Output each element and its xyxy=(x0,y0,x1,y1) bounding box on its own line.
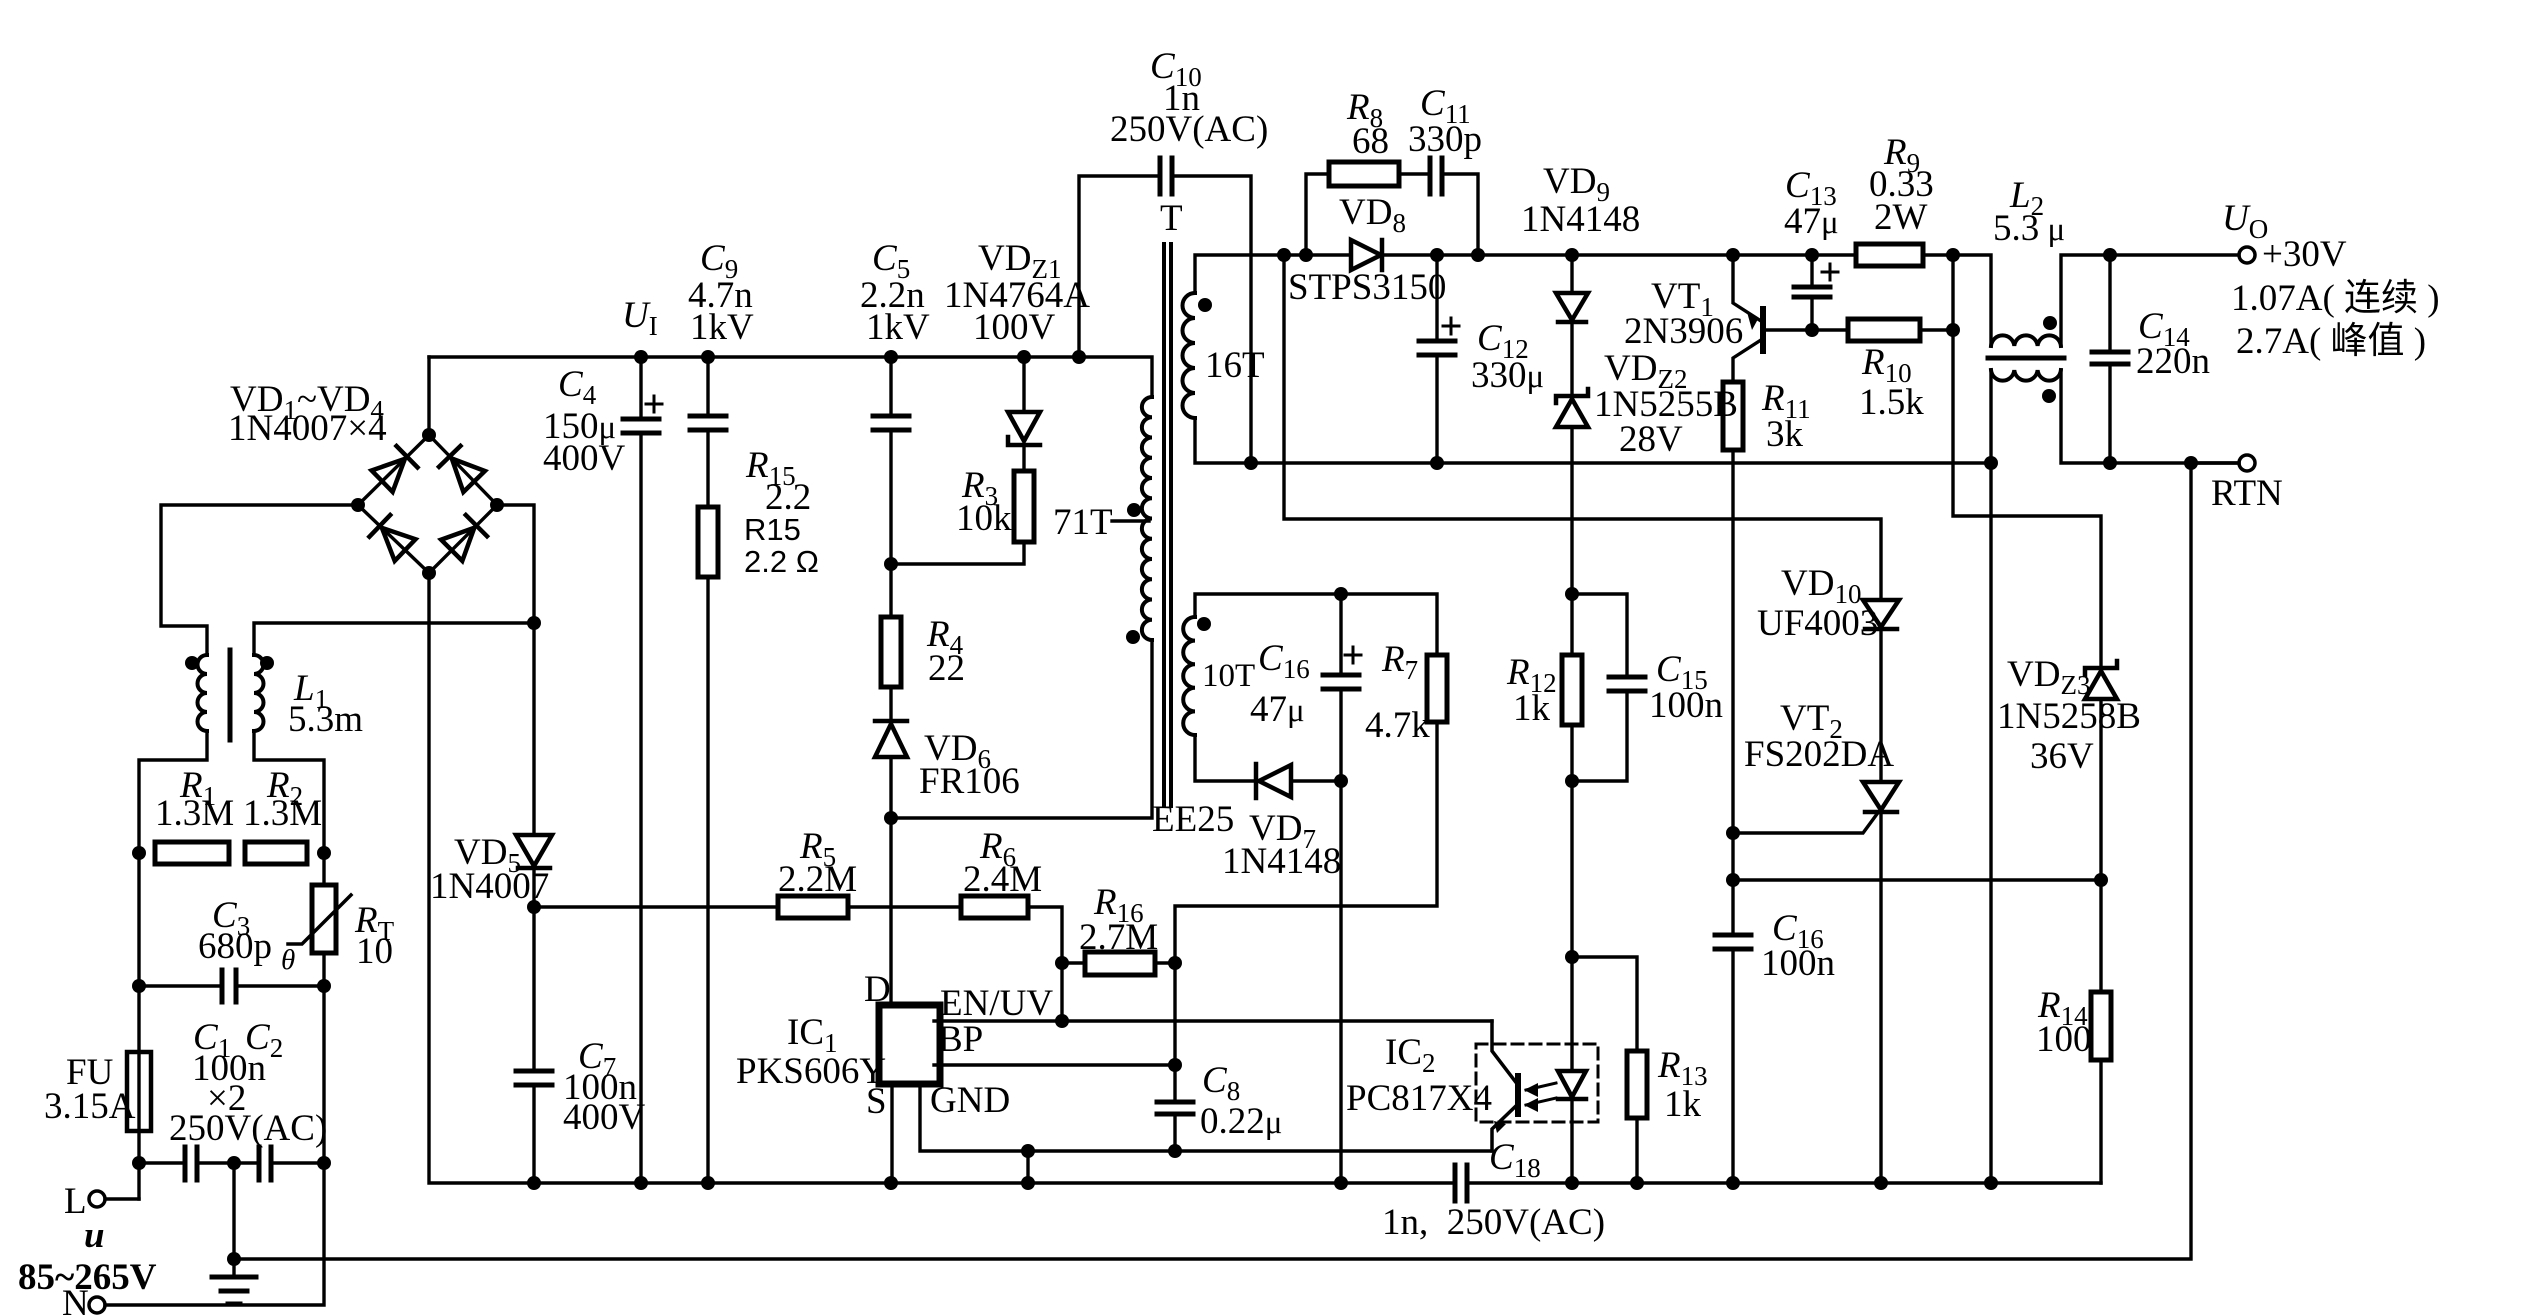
svg-text:EE25: EE25 xyxy=(1152,799,1234,840)
capacitor C13 xyxy=(1794,287,1830,297)
polarity dot L2 top xyxy=(2043,316,2057,330)
node C3 right xyxy=(317,979,331,993)
node rail C5 xyxy=(884,350,898,364)
node bias C16 bottom xyxy=(1334,774,1348,788)
node rail2 C13 xyxy=(1805,248,1819,262)
wire bridge top to rail xyxy=(427,357,430,435)
node Y-cap centre xyxy=(227,1156,241,1170)
polarity dot L1 right xyxy=(260,656,274,670)
resistor R6 xyxy=(961,896,1028,918)
diode VD10 xyxy=(1863,600,1899,629)
node bus VT2 xyxy=(1874,1176,1888,1190)
svg-text:N: N xyxy=(62,1283,89,1316)
node R13 branch xyxy=(1565,950,1579,964)
optocoupler IC2 phototransistor xyxy=(1492,1021,1518,1151)
svg-text:2.2 Ω: 2.2 Ω xyxy=(744,544,819,579)
node rail2 snubber left xyxy=(1299,248,1313,262)
node bus LED xyxy=(1565,1176,1579,1190)
wire RTN rail to terminal xyxy=(2191,461,2239,464)
wire R4 to VD6 xyxy=(889,687,892,721)
wire C13 top lead xyxy=(1810,255,1813,287)
capacitor C18 xyxy=(1455,1165,1467,1201)
wire C12 bottom to return rail xyxy=(1435,355,1438,463)
node bus GND xyxy=(1021,1176,1035,1190)
svg-text:1n, 250V(AC): 1n, 250V(AC) xyxy=(1382,1202,1605,1243)
wire L2 bottom winding left to return rail xyxy=(1989,370,1992,463)
wire VT1 base row xyxy=(1763,328,1848,331)
wire bridge right vertex down to VD5 xyxy=(497,505,534,835)
wire Y-cap centre to earth xyxy=(232,1163,235,1277)
wire feedback node to R12 xyxy=(1570,594,1573,655)
optocoupler IC2 dashed outline xyxy=(1476,1044,1598,1122)
node base R10 right xyxy=(1946,323,1960,337)
wire L1 right winding bottom to R2 xyxy=(254,731,324,853)
diode VD3 bridge bottom-left xyxy=(369,515,415,561)
svg-text:UF4003: UF4003 xyxy=(1757,603,1878,644)
wire L1 left winding bottom to R1 xyxy=(139,731,207,853)
capacitor C9 xyxy=(690,416,726,430)
diode VD4 bridge bottom-right xyxy=(441,515,487,561)
svg-text:0.22μ: 0.22μ xyxy=(1200,1101,1282,1142)
plus sign C13 xyxy=(1822,264,1838,280)
node R16 right xyxy=(1168,956,1182,970)
diode VD7 xyxy=(1256,764,1291,798)
svg-text:220n: 220n xyxy=(2136,341,2210,382)
wire clamp node to R4 xyxy=(889,564,892,617)
wire VT2 cathode to GND bus xyxy=(1879,813,1882,1183)
wire R13 branch xyxy=(1572,957,1637,1051)
capacitor C2 xyxy=(259,1147,271,1180)
wire R10 to right node xyxy=(1920,328,1953,331)
terminal RTN xyxy=(2239,455,2255,471)
svg-text:5.3 μ: 5.3 μ xyxy=(1993,208,2065,249)
node return C14 xyxy=(2103,456,2117,470)
resistor R10 xyxy=(1848,319,1920,341)
node R6 R16 corner xyxy=(1055,956,1069,970)
wire GND line drop to bus xyxy=(1026,1151,1029,1183)
svg-text:FS202DA: FS202DA xyxy=(1744,734,1894,775)
node rail2 switch drop xyxy=(1277,248,1291,262)
node rail2 C14 xyxy=(2103,248,2117,262)
transistor VT1 xyxy=(1747,309,1763,351)
node bus return drop xyxy=(1984,1176,1998,1190)
resistor R12 xyxy=(1562,655,1582,725)
svg-text:BP: BP xyxy=(938,1019,983,1060)
inductor L2 top winding xyxy=(1991,335,2061,346)
polarity dot 10T xyxy=(1197,617,1211,631)
svg-text:FR106: FR106 xyxy=(919,761,1020,802)
node bridge right xyxy=(490,498,504,512)
wire C15 bottom to R12 bottom xyxy=(1572,691,1627,781)
wire switching node down to clamp row xyxy=(1284,255,1881,600)
wire C7 bottom to primary GND bus xyxy=(532,1085,535,1183)
wire VT2 gate line xyxy=(1733,814,1877,833)
svg-text:2.2M: 2.2M xyxy=(778,859,857,900)
svg-text:S: S xyxy=(866,1081,887,1122)
node rail2 R9 right xyxy=(1946,248,1960,262)
wire VD9 to VDZ2 xyxy=(1570,322,1573,396)
wire VDZ2 anode to feedback node xyxy=(1570,428,1573,594)
wire L1 right winding top to AC node xyxy=(254,623,534,655)
terminal L xyxy=(89,1191,105,1207)
capacitor C14 xyxy=(2092,352,2128,364)
svg-text:10: 10 xyxy=(356,931,393,972)
polarity dot 16T xyxy=(1198,298,1212,312)
wire R12 bottom to opto LED xyxy=(1570,725,1573,1071)
wire C4 top lead xyxy=(639,357,642,419)
polarity dot primary bottom xyxy=(1126,630,1140,644)
plus sign C16 47u xyxy=(1345,647,1361,663)
node bridge bottom xyxy=(422,566,436,580)
wire C1 C2 line segments xyxy=(139,1161,324,1164)
node drain xyxy=(884,811,898,825)
optocoupler light arrows xyxy=(1524,1083,1556,1112)
wire bridge left vertex to L1 left winding xyxy=(161,505,358,655)
node rail C10 xyxy=(1072,350,1086,364)
svg-text:100: 100 xyxy=(2036,1019,2092,1060)
wire VT1 collector to R11 xyxy=(1733,340,1761,382)
optocoupler IC2 LED xyxy=(1558,1071,1586,1099)
svg-text:R15: R15 xyxy=(744,512,801,547)
svg-text:5.3m: 5.3m xyxy=(288,699,363,740)
plus sign C12 xyxy=(1443,318,1459,334)
svg-text:330p: 330p xyxy=(1408,119,1482,160)
inductor L1 right winding xyxy=(254,655,264,731)
diode VD8 xyxy=(1351,240,1382,270)
capacitor C11 xyxy=(1430,158,1442,194)
resistor R15 xyxy=(698,507,718,577)
capacitor C5 xyxy=(873,416,909,430)
wire RT top lead xyxy=(322,853,325,885)
node C1 left xyxy=(132,1156,146,1170)
wire R13 bottom to GND bus xyxy=(1635,1118,1638,1183)
thermistor RT xyxy=(288,885,351,953)
svg-text:PC817X4: PC817X4 xyxy=(1346,1078,1492,1119)
node EN/UV xyxy=(1055,1014,1069,1028)
zener VDZ1 xyxy=(1008,412,1040,445)
node C3 left xyxy=(132,979,146,993)
node return C12 xyxy=(1430,456,1444,470)
capacitor C16 100n xyxy=(1715,935,1751,949)
svg-text:400V: 400V xyxy=(563,1097,646,1138)
wire VD5 cathode to C7 xyxy=(532,869,535,1071)
wire bias line 10T to C16 R7 xyxy=(1195,594,1437,655)
wire R14 bottom to GND bus end xyxy=(2099,1060,2102,1183)
wire C14 bottom lead xyxy=(2108,364,2111,463)
thyristor VT2 xyxy=(1863,782,1899,812)
wire R11 bottom to C16 and GND bus xyxy=(1731,450,1734,935)
wire opto LED cathode to GND bus xyxy=(1570,1100,1573,1183)
wire VT2 anode row xyxy=(1733,878,2101,881)
svg-text:680p: 680p xyxy=(198,926,272,967)
node return C10 xyxy=(1244,456,1258,470)
wire R16 right lead xyxy=(1155,961,1175,964)
diode VD2 bridge top-right xyxy=(439,446,485,492)
svg-text:1N4007: 1N4007 xyxy=(430,866,549,907)
resistor R1 xyxy=(155,842,229,864)
wire C16 bottom to GND bus xyxy=(1731,949,1734,1183)
transformer T primary winding 71T xyxy=(1142,397,1152,640)
node clamp C5 R4 R3 xyxy=(884,557,898,571)
node rail C9 xyxy=(701,350,715,364)
svg-text:D: D xyxy=(864,969,891,1010)
capacitor C16 47u xyxy=(1323,675,1359,689)
wire N terminal lead up right column xyxy=(105,1163,324,1305)
node rail2 C12 xyxy=(1430,248,1444,262)
wire VD7 to C16 node xyxy=(1294,779,1341,782)
node R2 right xyxy=(317,846,331,860)
plus sign C4 xyxy=(646,396,662,412)
svg-text:1.07A( 连续 ): 1.07A( 连续 ) xyxy=(2231,278,2440,319)
svg-text:22: 22 xyxy=(928,648,965,689)
svg-text:68: 68 xyxy=(1352,121,1389,162)
svg-text:28V: 28V xyxy=(1619,419,1683,460)
wire C3 line left xyxy=(139,984,222,987)
node C2 right xyxy=(317,1156,331,1170)
wire VDZ3 anode to R14 xyxy=(2099,700,2102,992)
wire C3 line right xyxy=(236,984,324,987)
IC1 PKS606Y body xyxy=(879,1005,940,1084)
node bus C16 xyxy=(1334,1176,1348,1190)
svg-text:1k: 1k xyxy=(1664,1084,1702,1125)
capacitor C12 xyxy=(1419,341,1455,355)
svg-text:100V: 100V xyxy=(973,307,1056,348)
wire VT1 emitter to rail xyxy=(1733,255,1761,321)
node C8 GND xyxy=(1168,1144,1182,1158)
inductor L1 left winding xyxy=(198,655,208,731)
resistor R8 xyxy=(1329,162,1399,186)
wire L2 bottom winding right to RTN xyxy=(2061,370,2239,463)
wire VDZ1 top lead xyxy=(1022,357,1025,412)
svg-text:PKS606Y: PKS606Y xyxy=(736,1051,886,1092)
svg-text:2.4M: 2.4M xyxy=(963,859,1042,900)
wire primary DC+ rail U_I xyxy=(429,357,1152,397)
resistor R11 xyxy=(1723,382,1743,450)
zener VDZ2 xyxy=(1556,389,1588,427)
wire C16 47u top lead xyxy=(1339,594,1342,675)
polarity dot L2 bottom xyxy=(2042,389,2056,403)
wire IC1 GND pin line xyxy=(920,1084,1492,1151)
core transformer T xyxy=(1164,244,1171,806)
capacitor C10 xyxy=(1160,158,1172,194)
wire FU bottom to L terminal line xyxy=(137,1131,140,1199)
wire R6 to R16 corner xyxy=(1028,907,1062,963)
diode VD9 xyxy=(1556,293,1588,322)
wire line-sense R5 feed xyxy=(534,905,778,908)
node bus R13 xyxy=(1630,1176,1644,1190)
node feedback VDZ2 xyxy=(1565,587,1579,601)
diode VD1 bridge top-left xyxy=(372,446,418,492)
svg-text:36V: 36V xyxy=(2030,736,2094,777)
svg-text:2.7A( 峰值 ): 2.7A( 峰值 ) xyxy=(2236,320,2426,362)
wire R15 to GND bus xyxy=(706,577,709,1183)
svg-text:u: u xyxy=(84,1215,105,1256)
wire L2 top winding right to Uo xyxy=(2061,255,2239,346)
capacitor C4 xyxy=(623,419,659,433)
node return RTN drop xyxy=(2184,456,2198,470)
wire R7 bottom return to R16 node xyxy=(1175,722,1437,1102)
wire 16T bottom to return rail xyxy=(1195,418,1991,463)
svg-text:1.3M: 1.3M xyxy=(243,793,322,834)
node rail2 VT1 emitter xyxy=(1726,248,1740,262)
wire L terminal lead xyxy=(105,1197,139,1200)
node bus C4 xyxy=(634,1176,648,1190)
diode VD6 xyxy=(875,721,907,757)
node return L2 xyxy=(1984,456,1998,470)
node bias C16 xyxy=(1334,587,1348,601)
svg-text:400V: 400V xyxy=(543,438,626,479)
resistor R7 xyxy=(1427,655,1447,722)
wire primary winding bottom to drain xyxy=(891,640,1152,818)
svg-text:STPS3150: STPS3150 xyxy=(1288,267,1446,308)
fuse FU xyxy=(127,1052,151,1131)
svg-text:GND: GND xyxy=(930,1080,1010,1121)
node VT2 row left xyxy=(1726,873,1740,887)
wire C5 top lead xyxy=(889,357,892,416)
inductor L2 bottom winding xyxy=(1991,370,2061,381)
svg-text:3.15A: 3.15A xyxy=(44,1086,136,1127)
svg-text:2W: 2W xyxy=(1874,197,1928,238)
svg-text:1N4148: 1N4148 xyxy=(1222,841,1341,882)
wire bridge diamond edges xyxy=(358,435,497,573)
wire C4 bottom to GND bus xyxy=(639,433,642,1183)
wire R8 to C11 xyxy=(1399,172,1430,175)
wire 10T bottom to VD7 xyxy=(1195,735,1256,781)
wire C12 top lead xyxy=(1435,255,1438,341)
node base C13 xyxy=(1805,323,1819,337)
capacitor C7 xyxy=(516,1071,552,1085)
svg-text:θ: θ xyxy=(281,944,295,976)
svg-text:1k: 1k xyxy=(1513,688,1551,729)
svg-text:2N3906: 2N3906 xyxy=(1624,311,1743,352)
polarity dot L1 left xyxy=(185,656,199,670)
wire VD6 anode to drain node and IC1 D pin xyxy=(889,760,892,1005)
node bus C7 xyxy=(527,1176,541,1190)
wire C9 top lead xyxy=(706,357,709,416)
wire IC1 BP line xyxy=(934,1063,1175,1066)
node AC after L1 xyxy=(527,616,541,630)
wire R16 left lead xyxy=(1062,961,1085,964)
wire 71T pointer xyxy=(1112,519,1149,522)
resistor R14 xyxy=(2091,992,2111,1060)
svg-text:2.7M: 2.7M xyxy=(1079,917,1158,958)
polarity dot primary tap xyxy=(1127,503,1141,517)
wire R5 to R6 xyxy=(848,905,961,908)
node rail VDZ1 xyxy=(1017,350,1031,364)
capacitor C15 xyxy=(1609,677,1645,691)
svg-text:10k: 10k xyxy=(956,498,1012,539)
svg-text:100n: 100n xyxy=(1649,685,1723,726)
wire IC1 S pin to GND bus xyxy=(890,1084,893,1183)
node BP xyxy=(1168,1058,1182,1072)
svg-text:3k: 3k xyxy=(1766,414,1804,455)
wire VD9 top lead xyxy=(1570,255,1573,293)
wire C16 47u bottom to GND bus xyxy=(1339,689,1342,1183)
node bridge left xyxy=(351,498,365,512)
svg-text:1N4148: 1N4148 xyxy=(1521,199,1640,240)
wire C10 branch left xyxy=(1079,176,1160,357)
svg-text:47μ: 47μ xyxy=(1784,201,1839,242)
svg-text:71T: 71T xyxy=(1053,502,1113,543)
wire C5 bottom to clamp node xyxy=(889,430,892,564)
svg-text:1N4007×4: 1N4007×4 xyxy=(228,408,387,449)
core L1 xyxy=(228,650,233,740)
resistor R4 xyxy=(881,617,901,687)
wire left column R1 to FU xyxy=(137,853,140,1052)
node gate R11 xyxy=(1726,826,1740,840)
svg-text:10T: 10T xyxy=(1202,658,1255,694)
wire right node vertical xyxy=(1951,255,1954,330)
diode VD5 xyxy=(516,835,552,868)
wire IC1 EN/UV line xyxy=(934,1019,1492,1022)
node rail C4 xyxy=(634,350,648,364)
wire +30V rail VD8 to R9 xyxy=(1384,253,1856,256)
resistor R13 xyxy=(1627,1051,1647,1118)
wire return node down to secondary GND bus xyxy=(1989,463,1992,1183)
wire right column R2 to RT xyxy=(322,986,325,1163)
wire 16T top to +30V rail left xyxy=(1195,255,1351,293)
zener VDZ3 xyxy=(2085,661,2117,699)
wire +30V rail R9 to L2 top winding xyxy=(1923,255,1991,346)
node GND drop xyxy=(1021,1144,1035,1158)
wire C8 bottom lead xyxy=(1173,1114,1176,1151)
svg-text:1.5k: 1.5k xyxy=(1859,382,1924,423)
wire EN/UV sense drop xyxy=(1060,963,1063,1021)
wire earth bottom line to RTN column xyxy=(234,463,2191,1259)
node bus R11 chain xyxy=(1726,1176,1740,1190)
svg-text:330μ: 330μ xyxy=(1471,355,1544,396)
wire VD10 to VT2 xyxy=(1879,630,1882,782)
svg-text:1kV: 1kV xyxy=(866,307,930,348)
resistor R2 xyxy=(245,842,307,864)
node R1 left xyxy=(132,846,146,860)
wire primary GND bus xyxy=(429,573,1455,1183)
svg-text:250V(AC): 250V(AC) xyxy=(169,1108,327,1149)
wire C10 right to secondary return xyxy=(1172,176,1251,463)
wire VDZ1 to R3 xyxy=(1022,445,1025,471)
node earth line xyxy=(227,1252,241,1266)
svg-text:+30V: +30V xyxy=(2262,234,2347,275)
svg-text:EN/UV: EN/UV xyxy=(940,983,1053,1024)
node rail2 snubber right xyxy=(1471,248,1485,262)
transformer T secondary winding 16T xyxy=(1183,293,1196,418)
terminal Uo xyxy=(2239,247,2255,263)
capacitor C3 xyxy=(222,970,236,1002)
wire C13 bottom lead xyxy=(1810,297,1813,330)
svg-text:1N5258B: 1N5258B xyxy=(1997,696,2141,737)
resistor R16 xyxy=(1085,952,1155,975)
wire feedback node to C15 xyxy=(1572,594,1627,677)
svg-text:T: T xyxy=(1160,198,1183,239)
node R12 C15 bottom xyxy=(1565,774,1579,788)
resistor R5 xyxy=(778,896,848,918)
node bridge top xyxy=(422,428,436,442)
capacitor C8 xyxy=(1157,1102,1193,1114)
svg-text:16T: 16T xyxy=(1205,345,1265,386)
capacitor C1 xyxy=(185,1147,197,1180)
core L2 xyxy=(1988,356,2064,361)
svg-text:4.7k: 4.7k xyxy=(1365,705,1430,746)
wire C14 top lead xyxy=(2108,255,2111,352)
node bus IC1 S xyxy=(884,1176,898,1190)
transformer T bias winding 10T xyxy=(1183,617,1195,735)
wire R9 node down to VDZ3 xyxy=(1953,330,2101,668)
svg-text:100n: 100n xyxy=(1761,943,1835,984)
wire R3 bottom to clamp node xyxy=(891,542,1024,564)
node VT2 row right xyxy=(2094,873,2108,887)
wire RT bottom lead xyxy=(322,953,325,986)
node bus R15 xyxy=(701,1176,715,1190)
